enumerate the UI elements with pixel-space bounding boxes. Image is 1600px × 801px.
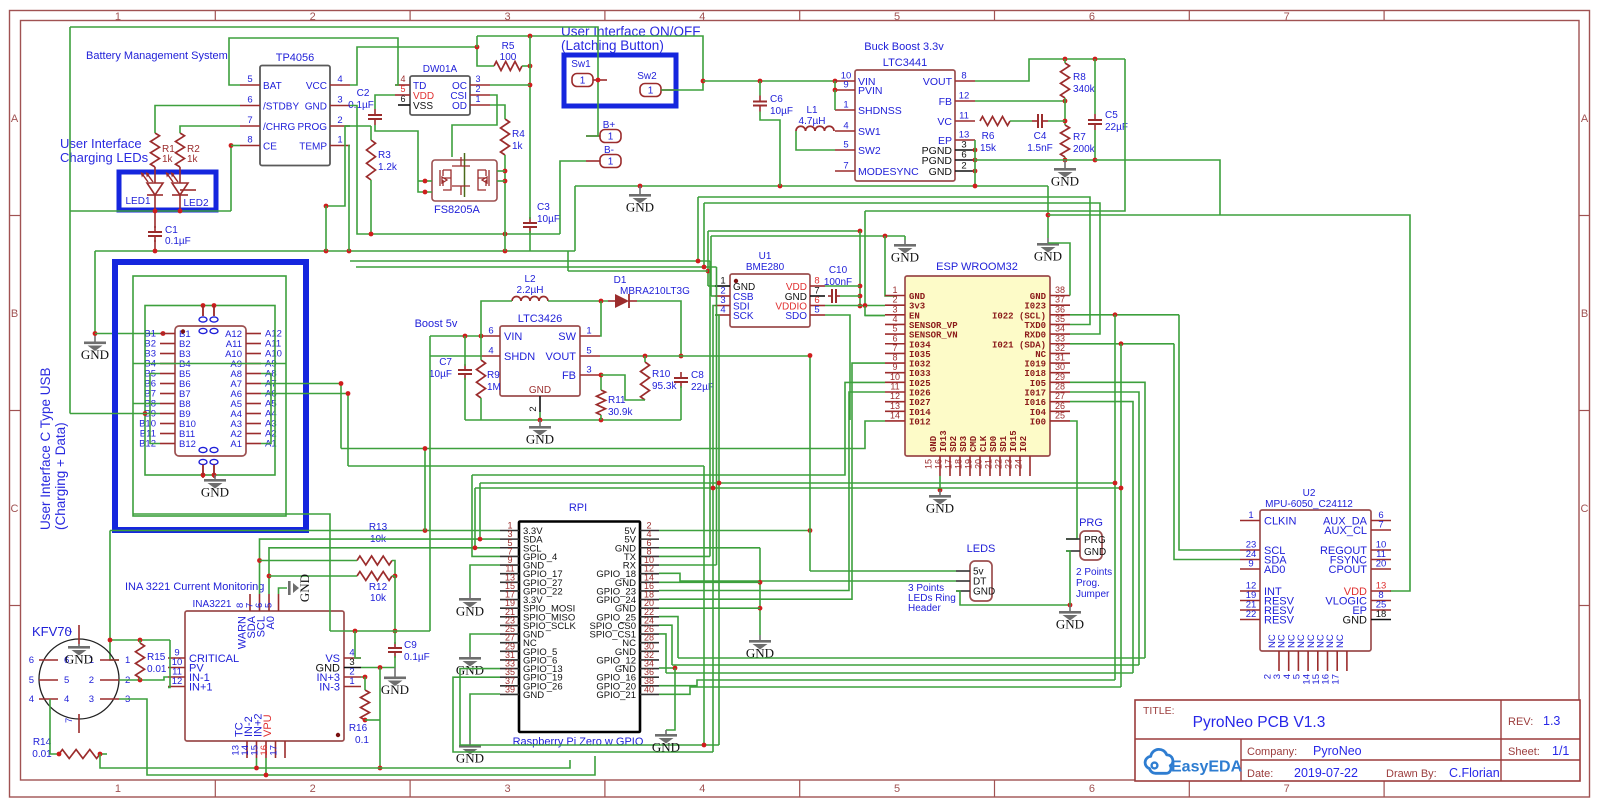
svg-text:U2: U2 <box>1303 488 1316 499</box>
wire TX riser <box>709 261 711 556</box>
svg-text:7: 7 <box>1378 520 1383 531</box>
wire left drop2 <box>710 236 712 296</box>
resistor R12 <box>357 572 392 581</box>
svg-text:17: 17 <box>944 459 954 469</box>
svg-text:8: 8 <box>892 353 897 363</box>
ground above ESP right <box>1034 238 1062 264</box>
svg-text:3: 3 <box>504 783 510 795</box>
svg-text:27: 27 <box>1055 391 1065 401</box>
svg-text:4: 4 <box>843 121 848 132</box>
svg-text:29: 29 <box>1055 372 1065 382</box>
svg-text:2: 2 <box>337 115 342 126</box>
svg-text:32: 32 <box>1055 343 1065 353</box>
wire LEDS 5v <box>810 570 956 572</box>
svg-text:INA3221: INA3221 <box>193 599 232 610</box>
wire FS right pin1 <box>497 170 505 172</box>
svg-text:PyroNeo PCB V1.3: PyroNeo PCB V1.3 <box>1193 714 1326 731</box>
IC LTC3426 <box>480 313 600 420</box>
wire R7 bottom <box>1064 157 1066 160</box>
connector LEDS <box>956 561 995 601</box>
junction <box>538 418 543 423</box>
svg-text:SHDNSS: SHDNSS <box>858 105 902 117</box>
wire L1 to SW2 <box>796 131 835 150</box>
junction <box>883 234 888 239</box>
svg-text:8: 8 <box>961 71 966 82</box>
svg-text:C8: C8 <box>691 370 704 381</box>
LED LED1 <box>142 173 163 195</box>
wire left drop1 <box>707 231 709 286</box>
svg-text:1k: 1k <box>187 154 199 165</box>
wire IO26 to GPIO23 <box>659 392 885 591</box>
capacitor C9 <box>388 642 402 658</box>
svg-text:I018: I018 <box>1024 369 1046 379</box>
junction <box>267 574 272 579</box>
svg-text:1: 1 <box>580 76 586 87</box>
svg-text:11: 11 <box>959 111 969 122</box>
junction <box>638 184 643 189</box>
junction <box>463 334 468 339</box>
junction <box>1119 486 1124 491</box>
wire IO5 <box>1070 382 1145 658</box>
svg-text:GND: GND <box>891 250 919 265</box>
wire R9 bottom <box>480 398 482 420</box>
wire IO0 to PRG <box>1066 421 1077 539</box>
svg-text:GND: GND <box>1030 292 1047 302</box>
wire gnd rail to ESP <box>711 235 905 237</box>
wire switch rail <box>477 36 703 90</box>
switch Sw2 <box>640 84 675 97</box>
ground RPI right2 <box>652 730 680 755</box>
svg-text:VCC: VCC <box>306 81 327 92</box>
wire TX <box>659 555 710 557</box>
label 2 points <box>1076 567 1112 578</box>
svg-text:L1: L1 <box>806 105 818 116</box>
junction <box>98 752 103 757</box>
switch Sw1 <box>572 74 607 87</box>
svg-text:6: 6 <box>400 94 405 104</box>
transistor pack FS8205A <box>432 153 497 201</box>
svg-text:I033: I033 <box>909 369 931 379</box>
wire KFV2 to IN-1 <box>119 677 168 680</box>
wire gnd stub <box>904 236 906 240</box>
wire RXD0 <box>704 203 1100 334</box>
title block <box>1135 700 1580 781</box>
wire VCC to R5 <box>350 47 494 85</box>
svg-text:A: A <box>11 113 19 125</box>
svg-text:I015: I015 <box>1009 430 1019 452</box>
svg-text:4: 4 <box>699 11 705 23</box>
svg-text:SD2: SD2 <box>949 436 959 452</box>
capacitor C8 <box>674 372 688 388</box>
ground RPI right1 <box>746 635 774 661</box>
svg-text:12: 12 <box>890 391 900 401</box>
junction <box>702 265 707 270</box>
wire IN-2 down <box>256 758 258 768</box>
svg-text:GND: GND <box>926 501 954 516</box>
svg-text:95.3k: 95.3k <box>652 381 677 392</box>
wire C4 to node <box>1048 120 1065 122</box>
resistor R11 <box>597 390 606 415</box>
svg-text:1k: 1k <box>512 141 524 152</box>
svg-text:R5: R5 <box>502 41 515 52</box>
junction <box>475 45 480 50</box>
svg-text:1: 1 <box>586 326 591 337</box>
svg-text:R6: R6 <box>982 131 995 142</box>
svg-text:C10: C10 <box>829 265 848 276</box>
ground LTC3441 <box>1051 160 1079 189</box>
junction <box>347 249 352 254</box>
LED LED2 <box>167 173 188 195</box>
svg-text:B12: B12 <box>179 439 196 450</box>
svg-text:1M: 1M <box>487 382 501 393</box>
svg-text:REV:: REV: <box>1508 716 1533 728</box>
wire OC/C3 vertical <box>529 36 531 219</box>
svg-text:7: 7 <box>1284 11 1290 23</box>
svg-text:GND: GND <box>1343 615 1368 627</box>
resistor R8 <box>1061 63 1070 98</box>
wire boost vin <box>430 335 480 337</box>
junction <box>93 331 98 336</box>
svg-text:RESV: RESV <box>1264 615 1295 627</box>
svg-text:2: 2 <box>528 406 539 411</box>
wire SDI down <box>713 306 715 753</box>
wire VS pin <box>355 631 361 658</box>
svg-text:3: 3 <box>586 365 591 376</box>
wire R16 bottom <box>365 719 380 721</box>
svg-text:2: 2 <box>310 11 316 23</box>
svg-text:4: 4 <box>29 694 34 705</box>
svg-text:22: 22 <box>994 459 1004 469</box>
wire B9 line <box>70 413 160 415</box>
junction <box>833 88 838 93</box>
wire RX bus <box>356 266 717 268</box>
capacitor C10 <box>828 289 840 303</box>
svg-text:GND: GND <box>929 435 939 452</box>
svg-text:R4: R4 <box>512 129 525 140</box>
wire SW <box>600 301 601 336</box>
svg-text:/STDBY: /STDBY <box>263 102 299 113</box>
wire 3.3V to KFV1 <box>110 531 119 661</box>
wire EN <box>865 306 885 316</box>
svg-text:6: 6 <box>247 95 252 106</box>
junction <box>696 259 701 264</box>
label LEDS <box>967 543 996 555</box>
svg-text:PyroNeo: PyroNeo <box>1313 744 1362 758</box>
junction <box>1063 158 1068 163</box>
junction <box>143 411 148 416</box>
svg-text:I017: I017 <box>1024 389 1046 399</box>
junction <box>673 666 678 671</box>
svg-text:GND: GND <box>81 347 109 362</box>
svg-text:GND: GND <box>626 200 654 215</box>
junction <box>643 354 648 359</box>
svg-text:SD1: SD1 <box>999 435 1009 452</box>
wire pgnd rail <box>975 159 1095 161</box>
svg-text:NC: NC <box>1335 634 1346 648</box>
wire VDDIO to 3v3 <box>825 305 885 307</box>
ground RPI left1 <box>456 593 484 619</box>
svg-text:6: 6 <box>961 150 966 161</box>
junction <box>324 249 329 254</box>
svg-text:C3: C3 <box>537 202 550 213</box>
wire TXD0 drop <box>697 197 699 261</box>
svg-text:VOUT: VOUT <box>545 351 576 363</box>
junction <box>1113 481 1118 486</box>
wire BAT to DW01A TD <box>229 38 398 85</box>
wire GPIO25 <box>659 617 678 658</box>
svg-text:18: 18 <box>954 459 964 469</box>
resistor R16 <box>361 690 370 720</box>
wire OD to R4 <box>490 105 505 119</box>
junction <box>1119 341 1124 346</box>
svg-text:GND: GND <box>456 604 484 619</box>
svg-text:A0: A0 <box>265 616 277 629</box>
wire SDA riser <box>479 483 481 539</box>
svg-text:C7: C7 <box>439 357 452 368</box>
svg-text:R7: R7 <box>1073 132 1086 143</box>
junction <box>503 232 508 237</box>
wire LEDS gnd <box>956 591 1070 605</box>
svg-text:Charging LEDs: Charging LEDs <box>60 150 149 165</box>
junction <box>503 169 508 174</box>
svg-text:C9: C9 <box>404 640 417 651</box>
svg-text:Sw1: Sw1 <box>571 59 591 70</box>
wire SDA to MPU <box>1174 344 1240 560</box>
wire IO32 to GPIO24 <box>659 363 885 599</box>
svg-text:R15: R15 <box>147 652 166 663</box>
section label Boost 5v <box>415 318 458 330</box>
svg-text:I02: I02 <box>1019 436 1029 452</box>
svg-text:7: 7 <box>247 115 252 126</box>
svg-text:R3: R3 <box>378 150 391 161</box>
svg-text:11: 11 <box>890 382 899 392</box>
svg-text:2: 2 <box>310 783 316 795</box>
junction <box>706 269 711 274</box>
svg-text:12: 12 <box>172 676 183 687</box>
svg-text:R16: R16 <box>349 723 368 734</box>
wire VDD pin <box>825 285 860 287</box>
connector B+ label <box>603 120 616 131</box>
svg-text:I035: I035 <box>909 350 931 360</box>
svg-text:34: 34 <box>1055 324 1065 334</box>
wire ESP gnd15 <box>939 476 941 490</box>
junction <box>863 303 868 308</box>
svg-text:LED2: LED2 <box>183 198 208 209</box>
svg-text:3: 3 <box>89 694 94 705</box>
svg-text:TEMP: TEMP <box>299 142 327 153</box>
wire gnd 34 drop <box>666 668 675 730</box>
svg-text:LTC3426: LTC3426 <box>518 313 562 325</box>
svg-text:1: 1 <box>349 676 354 687</box>
svg-text:7: 7 <box>64 718 75 723</box>
wire bus 673 <box>666 672 1133 674</box>
svg-text:(Charging + Data): (Charging + Data) <box>53 422 68 530</box>
svg-text:7: 7 <box>843 161 848 172</box>
svg-text:EN: EN <box>909 311 920 321</box>
annotation box latching button <box>564 55 676 106</box>
svg-text:I023: I023 <box>1024 302 1046 312</box>
ground INA right <box>381 668 409 698</box>
wire battery positive to B+ <box>70 27 598 136</box>
svg-text:4: 4 <box>64 694 69 705</box>
svg-text:GND: GND <box>381 682 409 697</box>
ground USB <box>201 475 229 500</box>
junction <box>423 528 428 533</box>
junction <box>339 381 344 386</box>
svg-text:0.01: 0.01 <box>32 749 52 760</box>
svg-text:/CHRG: /CHRG <box>263 122 295 133</box>
junction <box>1113 312 1118 317</box>
svg-text:19: 19 <box>964 459 974 469</box>
wire gnd rail upper-left <box>95 250 575 252</box>
label 3 points <box>908 583 944 594</box>
resistor R9 <box>477 360 486 398</box>
capacitor C2 <box>368 109 382 125</box>
wire R12 left <box>269 575 357 577</box>
svg-text:L2: L2 <box>524 274 536 285</box>
svg-text:INA 3221 Current Monitoring: INA 3221 Current Monitoring <box>125 581 264 593</box>
ground mid <box>626 186 654 215</box>
wire SDA to RPI <box>260 539 501 594</box>
resistor R10 <box>641 362 650 400</box>
svg-text:C: C <box>1581 503 1589 515</box>
svg-text:DW01A: DW01A <box>423 64 458 75</box>
wire /STDBY to R1 <box>155 106 240 134</box>
junction <box>161 331 166 336</box>
svg-text:200k: 200k <box>1073 144 1096 155</box>
junction <box>1093 57 1098 62</box>
wire FS right pin2 <box>497 180 505 182</box>
capacitor C4 <box>1032 114 1048 128</box>
svg-text:Company:: Company: <box>1247 746 1297 758</box>
wire 3.3V drop boost vin to VS rail <box>429 336 431 631</box>
wire IO17 <box>1070 392 1139 665</box>
svg-text:(Latching Button): (Latching Button) <box>561 38 664 53</box>
junction <box>599 418 604 423</box>
resistor R13 <box>357 556 392 565</box>
wire FS8205A left pin <box>418 180 432 182</box>
wire TX bus <box>350 260 710 262</box>
svg-text:5: 5 <box>894 11 900 23</box>
svg-text:Date:: Date: <box>1247 768 1273 780</box>
wire R15 top line <box>110 639 170 641</box>
junction <box>973 169 978 174</box>
wire B- to battery minus <box>560 161 586 234</box>
wire R11 bottom <box>600 415 602 420</box>
svg-text:9: 9 <box>892 362 897 372</box>
wire CE <box>231 145 240 147</box>
wire R9 top <box>480 336 482 360</box>
svg-text:I016: I016 <box>1024 398 1046 408</box>
wire R5 up <box>476 36 478 47</box>
wire gnd pin9 <box>470 565 500 593</box>
svg-text:4: 4 <box>337 74 342 85</box>
wire R3 bottom <box>370 180 372 234</box>
svg-text:1: 1 <box>892 285 897 295</box>
junction <box>528 64 533 69</box>
svg-text:CMD: CMD <box>969 435 979 452</box>
svg-text:6: 6 <box>488 326 493 337</box>
svg-text:5: 5 <box>892 324 897 334</box>
svg-text:7: 7 <box>1284 783 1290 795</box>
svg-text:GND: GND <box>909 292 926 302</box>
svg-text:LTC3441: LTC3441 <box>883 57 927 69</box>
ground LTC3426 <box>526 420 554 447</box>
wire R15 bottom <box>139 678 141 680</box>
wire R10 top <box>644 356 646 362</box>
wire SCL to RPI <box>269 548 500 594</box>
svg-text:5: 5 <box>64 675 69 686</box>
svg-text:36: 36 <box>1055 304 1065 314</box>
svg-text:AUX_CL: AUX_CL <box>1324 525 1367 537</box>
wire VOUT to 3.3V rail <box>975 59 1125 81</box>
wire 5V drop <box>809 356 811 572</box>
wire VIN PVIN tie <box>834 81 836 90</box>
svg-text:13: 13 <box>890 401 900 411</box>
junction <box>229 143 234 148</box>
svg-text:10µF: 10µF <box>537 214 560 225</box>
wire gnd pin34 <box>659 667 675 669</box>
wire SCK down <box>715 315 719 745</box>
wire C1 bottom <box>154 240 156 251</box>
junction <box>378 665 383 670</box>
junction <box>973 184 978 189</box>
svg-text:3v3: 3v3 <box>909 302 925 312</box>
wire C6 bottom <box>760 112 780 187</box>
junction <box>212 303 217 308</box>
junction <box>858 294 863 299</box>
svg-text:U1: U1 <box>759 251 772 262</box>
junction <box>808 353 813 358</box>
wire usb row B4 <box>133 363 286 365</box>
wire rail 271 <box>568 270 708 272</box>
wire 3.3 rail to BME <box>708 230 860 232</box>
svg-text:3: 3 <box>504 11 510 23</box>
svg-text:EasyEDA: EasyEDA <box>1171 759 1243 776</box>
wire gnd pin39 <box>470 694 500 740</box>
junction <box>778 184 783 189</box>
svg-text:0.1: 0.1 <box>355 735 369 746</box>
wire 3.3V riser <box>424 449 426 531</box>
junction <box>1046 213 1051 218</box>
junction <box>353 629 358 634</box>
wire gnd rail mid <box>575 185 1048 187</box>
svg-text:25: 25 <box>1055 410 1065 420</box>
svg-text:CLKIN: CLKIN <box>1264 516 1296 528</box>
wire GPIO20 bus <box>659 680 1115 686</box>
svg-text:GND: GND <box>1056 617 1084 632</box>
junction <box>473 545 478 550</box>
wire GPIO_4 <box>472 475 500 556</box>
wire C5 bottom <box>1094 130 1096 160</box>
wire EP PGND gnd drop <box>974 140 976 186</box>
svg-text:SHDN: SHDN <box>504 351 535 363</box>
section label User Interface Charging LEDs <box>60 136 142 151</box>
wire IO21 SDA <box>1070 343 1174 345</box>
svg-text:2: 2 <box>475 84 480 94</box>
ground near USB <box>81 334 109 363</box>
svg-text:4: 4 <box>720 305 725 316</box>
wire R15 top stub <box>139 640 141 643</box>
wire LED anodes <box>155 167 180 183</box>
wire IO12 to USB A7 <box>341 421 885 449</box>
junction <box>363 718 368 723</box>
svg-text:20: 20 <box>974 459 984 469</box>
svg-text:5: 5 <box>894 783 900 795</box>
svg-text:5: 5 <box>400 84 405 94</box>
svg-text:I026: I026 <box>909 389 931 399</box>
svg-text:ESP WROOM32: ESP WROOM32 <box>936 261 1018 273</box>
